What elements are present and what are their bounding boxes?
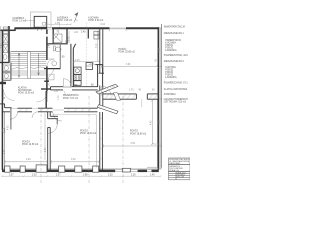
- bottom right inner corner: [147, 166, 157, 168]
- left shaft wall: [8, 26, 10, 63]
- dashed axis line left: [40, 108, 42, 184]
- duct stub left room: [10, 108, 12, 130]
- salon label: [119, 48, 136, 54]
- svg-text:1.10: 1.10: [58, 95, 60, 100]
- kitchen door threshold: [63, 86, 72, 87]
- left wc fixtures: [3, 55, 11, 79]
- north wall band hatch: [19, 108, 91, 111]
- svg-text:KOMÓRKA: KOMÓRKA: [164, 93, 176, 96]
- wc sink: [52, 61, 57, 66]
- komorka storage box: [34, 16, 47, 27]
- svg-text:MIESZKANIE NR 1: MIESZKANIE NR 1: [164, 32, 185, 35]
- divider hatch: [100, 117, 102, 160]
- svg-text:1.70: 1.70: [110, 86, 115, 88]
- salon-bottomright wall band: [103, 94, 158, 99]
- stair center stringer: [28, 52, 31, 79]
- svg-text:1.45: 1.45: [150, 175, 155, 177]
- svg-text:INWENTARYZACJA: INWENTARYZACJA: [164, 26, 186, 29]
- svg-text:POW. 18.80 m2: POW. 18.80 m2: [130, 133, 147, 135]
- pokoj 18.80 label: [130, 130, 147, 136]
- window hatch top wall: [110, 27, 127, 29]
- svg-text:1.35: 1.35: [54, 91, 59, 93]
- dashed axis line right: [122, 96, 124, 184]
- center room top dim line: [53, 114, 97, 115]
- left lower divider walls: [2, 71, 11, 73]
- bathroom west wall: [52, 29, 54, 44]
- kitchen door arc: [63, 79, 71, 87]
- svg-text:3.50: 3.50: [131, 143, 136, 145]
- bottomleft room east wall band lower: [48, 128, 51, 170]
- svg-text:2.90: 2.90: [26, 159, 31, 161]
- center room right dim: [96, 115, 98, 168]
- hall stub wall: [44, 80, 49, 82]
- entry door arc: [47, 59, 54, 66]
- bottom wall window sills right: [115, 170, 151, 172]
- svg-text:POKÓJ: POKÓJ: [130, 130, 138, 133]
- stair up arrow flight1: [18, 53, 20, 77]
- svg-text:MIESZKANIE NR 2: MIESZKANIE NR 2: [164, 60, 185, 63]
- lazienka label: [57, 17, 73, 23]
- svg-text:2.20: 2.20: [108, 175, 113, 177]
- junction vertical band: [100, 86, 103, 109]
- window jamb ticks: [110, 30, 127, 32]
- legend pointer line: [152, 143, 161, 145]
- svg-text:UŻYTKOWA: 102 m2: UŻYTKOWA: 102 m2: [164, 100, 187, 103]
- svg-text:3.10: 3.10: [96, 43, 98, 48]
- center-right divider band: [100, 112, 103, 170]
- klatka schodowa label: [18, 86, 35, 94]
- svg-text:2.35: 2.35: [32, 175, 37, 177]
- svg-text:POKÓJ: POKÓJ: [22, 140, 30, 143]
- pokoj 12.50 label: [22, 140, 39, 146]
- svg-text:1.20: 1.20: [74, 32, 79, 34]
- svg-text:4.35: 4.35: [8, 125, 10, 130]
- salon door arc: [102, 86, 111, 95]
- title block: [169, 158, 191, 180]
- svg-text:POKÓJ: POKÓJ: [119, 48, 127, 51]
- bottom dim line: [1, 176, 161, 177]
- svg-text:4.40: 4.40: [45, 147, 47, 152]
- kitchen wall pier: [87, 29, 89, 38]
- svg-text:7.30: 7.30: [159, 120, 161, 125]
- svg-text:ŁAZIENKA: ŁAZIENKA: [165, 76, 177, 79]
- wall tick marks: [48, 43, 68, 44]
- top exterior wall: [15, 27, 159, 29]
- kuchnia label: [88, 17, 104, 23]
- left wc divider: [0, 62, 10, 64]
- scattered tiny dims: [49, 32, 108, 94]
- lazienka leader: [59, 22, 61, 28]
- svg-text:2.07: 2.07: [9, 175, 14, 177]
- stairwell right wall upper: [46, 29, 48, 34]
- svg-text:3.30: 3.30: [71, 159, 76, 161]
- bottom dim numbers: [9, 175, 155, 177]
- svg-text:POW. 15.40 m2: POW. 15.40 m2: [80, 133, 97, 135]
- kitchen sink counter: [74, 67, 81, 85]
- top wall door threshold: [47, 28, 52, 29]
- svg-text:POW. 12.50 m2: POW. 12.50 m2: [22, 144, 39, 146]
- kitchen stove block: [86, 63, 93, 70]
- svg-text:1.70: 1.70: [129, 90, 134, 92]
- svg-text:RYS. NR: RYS. NR: [177, 176, 185, 178]
- svg-text:ŁAZIENKA: ŁAZIENKA: [165, 49, 177, 52]
- bottom right room dim line: [104, 145, 158, 148]
- right wall inner line: [156, 100, 158, 167]
- kitchen west wall band: [71, 44, 76, 87]
- svg-text:4.60: 4.60: [151, 120, 153, 125]
- door arc room3: [53, 112, 62, 121]
- komorka outer enclosure: [31, 12, 52, 28]
- kitchen vertical dim: [97, 31, 99, 62]
- svg-text:2.64: 2.64: [101, 24, 106, 26]
- hall west wall: [45, 91, 47, 109]
- door thresholds in north wall: [12, 108, 64, 110]
- stair break wavy line: [11, 67, 47, 70]
- svg-text:6.40: 6.40: [1, 43, 3, 48]
- shaft box 1: [3, 27, 8, 34]
- title block text: [169, 158, 190, 178]
- hall small door arc: [48, 74, 54, 80]
- band break lens: [114, 93, 121, 100]
- doorway leader: [141, 99, 143, 107]
- shower cabin: [53, 34, 62, 43]
- bottomleft room vert dim: [44, 113, 46, 160]
- stairwell bottom left block: [0, 82, 6, 84]
- left outer dim line: [0, 26, 2, 62]
- door arc room2: [32, 112, 38, 118]
- svg-text:POW. 15.50 m2: POW. 15.50 m2: [18, 92, 35, 94]
- stairwell left boundary: [10, 52, 12, 79]
- door arc room1: [10, 112, 18, 120]
- svg-text:2.05: 2.05: [68, 36, 70, 41]
- right exterior wall: [157, 27, 159, 169]
- svg-text:POW. 7.07 m2: POW. 7.07 m2: [63, 98, 79, 100]
- break wing bottom: [97, 105, 118, 114]
- svg-text:POWIERZCHNIA: 57.1: POWIERZCHNIA: 57.1: [164, 82, 189, 85]
- stair hall door arcs: [4, 90, 48, 103]
- break wing top: [96, 84, 118, 94]
- center room dim line: [52, 160, 100, 163]
- bathroom floor wall: [48, 43, 68, 45]
- hall south wall west: [41, 88, 51, 90]
- salon dim line: [101, 65, 158, 68]
- svg-text:2.37: 2.37: [56, 175, 61, 177]
- legend text block: [164, 26, 189, 104]
- bottom wall inner line: [2, 168, 159, 170]
- bottomleft door leaf: [56, 119, 58, 125]
- band hatch: [105, 94, 158, 99]
- svg-text:2.40: 2.40: [75, 60, 80, 62]
- svg-text:POW. 9.60 m2: POW. 9.60 m2: [88, 20, 104, 22]
- svg-text:POW. 2.0 m2: POW. 2.0 m2: [13, 21, 27, 23]
- svg-text:4.40: 4.40: [4, 149, 6, 154]
- komorka leader line: [25, 19, 35, 21]
- bottomleft room dim line: [5, 160, 47, 163]
- kitchen dim line: [73, 61, 100, 63]
- svg-text:2.28: 2.28: [131, 175, 136, 177]
- svg-text:2.40: 2.40: [81, 32, 86, 34]
- chimney left tick: [89, 64, 96, 66]
- right outer dim line: [159, 28, 162, 169]
- wc room south wall: [44, 68, 61, 70]
- top wall left step: [0, 28, 16, 31]
- north arrow: [74, 13, 78, 23]
- left wall inner line: [3, 112, 5, 170]
- left exterior wall: [1, 30, 3, 170]
- svg-text:PRZEDPOKÓJ: PRZEDPOKÓJ: [63, 94, 79, 97]
- stair up arrow flight2: [38, 53, 40, 75]
- bottom exterior wall: [2, 170, 159, 173]
- bottom wall window boxes: [5, 165, 99, 172]
- wc door arc: [48, 69, 54, 76]
- svg-text:POKÓJ: POKÓJ: [80, 130, 88, 133]
- bottom rooms north wall band: [0, 104, 98, 112]
- pokoj 15.40 label: [80, 130, 97, 136]
- komorka door swing: [38, 27, 42, 31]
- bath dim line above wall: [47, 24, 72, 25]
- stair treads: [11, 52, 47, 79]
- komorka label: [13, 17, 27, 23]
- svg-text:8.60: 8.60: [9, 57, 11, 62]
- bathroom east wall: [66, 29, 68, 45]
- svg-text:WARSZAWA: WARSZAWA: [169, 162, 180, 165]
- shaft box 2 X: [3, 35, 8, 44]
- svg-text:2.98: 2.98: [83, 175, 88, 177]
- chimney band: [95, 65, 102, 87]
- kitchen fixtures top: [94, 31, 99, 39]
- bottomleft room east wall band upper: [48, 112, 58, 119]
- stairwell top line: [11, 50, 47, 52]
- interior dim vertical right: [151, 100, 154, 146]
- toilet: [54, 46, 61, 52]
- kitchen hall south wall band: [51, 87, 98, 90]
- bottom wall center window box: [122, 168, 130, 172]
- przedpokoj label: [63, 94, 79, 100]
- svg-text:POWIERZCHNIA: 44.9: POWIERZCHNIA: 44.9: [164, 54, 189, 57]
- salon west wall band: [99, 29, 104, 73]
- svg-text:3.90: 3.90: [126, 64, 131, 66]
- legend separator line: [160, 24, 162, 168]
- stairwell right wall lower: [46, 66, 48, 91]
- kuchnia label leader: [85, 23, 87, 87]
- svg-text:POW. 25.85 m2: POW. 25.85 m2: [119, 52, 136, 54]
- svg-text:KLATKA-SCHODOWA: KLATKA-SCHODOWA: [164, 88, 188, 91]
- radiator left room: [3, 129, 5, 133]
- bottomleft door arc: [48, 124, 57, 133]
- wc room east wall: [59, 44, 61, 69]
- dashed axis line center: [88, 96, 90, 184]
- shaft box 3 X: [3, 45, 8, 53]
- komorka inner mark: [43, 23, 46, 26]
- svg-text:4.05: 4.05: [159, 47, 161, 52]
